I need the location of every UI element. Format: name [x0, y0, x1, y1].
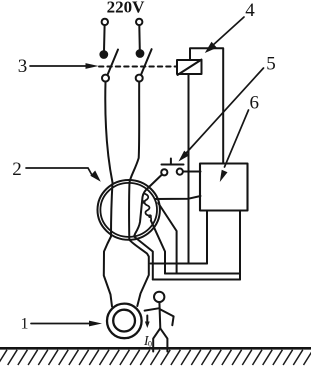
svg-text:1: 1	[21, 315, 29, 332]
svg-text:6: 6	[249, 92, 259, 113]
svg-text:5: 5	[266, 54, 276, 75]
svg-text:220V: 220V	[107, 0, 146, 17]
svg-text:3: 3	[18, 56, 28, 77]
svg-text:2: 2	[12, 159, 22, 180]
svg-text:0: 0	[148, 340, 152, 349]
svg-text:4: 4	[245, 0, 255, 21]
